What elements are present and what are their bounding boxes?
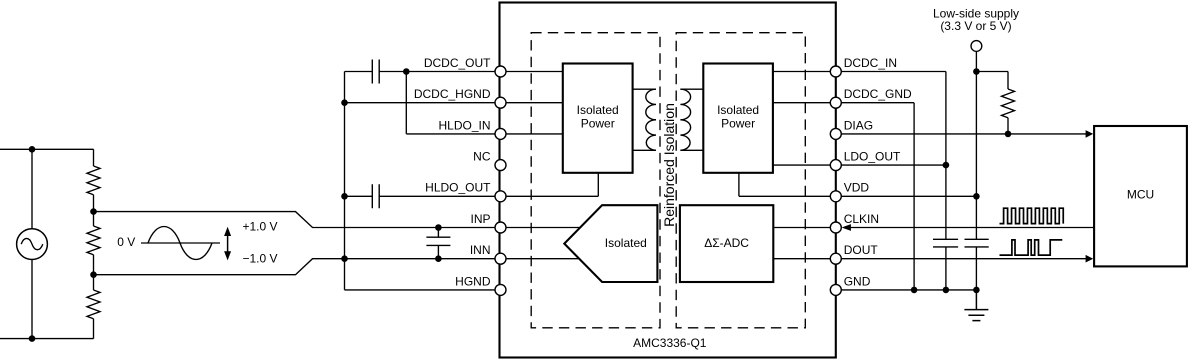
- ground symbol: [964, 290, 988, 321]
- svg-text:DCDC_OUT: DCDC_OUT: [424, 56, 491, 70]
- isolation barrier dashed box right: [676, 33, 805, 328]
- sine annotation waveform: [148, 227, 212, 260]
- wire DCDC_OUT row: [345, 71, 501, 73]
- node DCDC_OUT HLDO_IN: [403, 68, 410, 75]
- svg-text:DCDC_GND: DCDC_GND: [844, 87, 912, 101]
- svg-text:+1.0 V: +1.0 V: [243, 219, 278, 233]
- svg-text:−1.0 V: −1.0 V: [243, 252, 278, 266]
- wire VDD external: [836, 195, 977, 197]
- node VDD supply: [973, 193, 980, 200]
- node supply DCDC_IN row: [973, 68, 980, 75]
- wire source leads: [31, 149, 33, 338]
- node GND 2: [943, 287, 950, 294]
- svg-text:(3.3 V or 5 V): (3.3 V or 5 V): [940, 19, 1011, 33]
- pin DCDC_GND: [830, 97, 841, 108]
- svg-text:Isolated: Isolated: [717, 103, 759, 117]
- wire HGND row: [345, 289, 501, 291]
- svg-text:DOUT: DOUT: [844, 243, 879, 257]
- data waveform glyph: [1000, 240, 1063, 255]
- pin HLDO_OUT: [495, 191, 506, 202]
- svg-text:INP: INP: [470, 212, 490, 226]
- wire INP internal: [501, 227, 591, 229]
- wire LDO_OUT: [836, 164, 946, 166]
- svg-text:LDO_OUT: LDO_OUT: [844, 150, 901, 164]
- transformer secondary coil: [680, 89, 703, 150]
- svg-text:Reinforced Isolation: Reinforced Isolation: [661, 103, 677, 227]
- svg-text:INN: INN: [470, 243, 491, 257]
- wire x=945.9 vertical: [945, 165, 947, 290]
- node INN bus: [341, 255, 348, 262]
- node divider -1.0V: [90, 271, 97, 278]
- pin HGND: [495, 284, 506, 295]
- pin HLDO_IN: [495, 128, 506, 139]
- wire divider vertical: [93, 149, 95, 338]
- capacitor C2 HLDO_OUT: [372, 184, 379, 208]
- wire GND external: [836, 289, 977, 291]
- isolated power block U1a: [563, 64, 633, 173]
- wire HLDO_OUT internal: [501, 173, 599, 197]
- svg-text:HGND: HGND: [455, 274, 491, 288]
- pin NC: [495, 160, 506, 171]
- svg-text:Power: Power: [581, 117, 615, 131]
- wire left bus vertical x=344.5: [344, 72, 346, 290]
- transformer primary coil: [633, 89, 656, 150]
- svg-text:NC: NC: [473, 150, 491, 164]
- capacitor C5 on supply vertical: [965, 239, 989, 247]
- svg-text:AMC3336-Q1: AMC3336-Q1: [633, 336, 707, 350]
- node GND 3: [973, 287, 980, 294]
- svg-text:Isolated: Isolated: [605, 236, 647, 250]
- wire supply vertical: [975, 51, 977, 290]
- wire INP from divider: [94, 212, 501, 228]
- svg-text:CLKIN: CLKIN: [844, 212, 879, 226]
- svg-text:DCDC_IN: DCDC_IN: [844, 56, 897, 70]
- node source top: [29, 146, 36, 153]
- wire DCDC_GND: [836, 103, 914, 290]
- svg-text:GND: GND: [844, 274, 871, 288]
- node INP cap: [435, 224, 442, 231]
- svg-text:HLDO_OUT: HLDO_OUT: [425, 181, 491, 195]
- svg-text:0 V: 0 V: [117, 235, 135, 249]
- pin CLKIN: [830, 222, 841, 233]
- node DCDC_HGND bus: [341, 99, 348, 106]
- wire supply branch to resistor: [976, 72, 1008, 134]
- resistor R2: [87, 226, 100, 255]
- chip outline AMC3336-Q1: [500, 3, 836, 358]
- arrowhead DIAG: [1086, 130, 1094, 138]
- capacitor C1 DCDC_OUT to DCDC_HGND: [372, 60, 379, 84]
- sine annotation axis: [141, 242, 220, 244]
- wire DOUT internal: [773, 258, 836, 260]
- chip internal wires left side: [501, 72, 563, 134]
- wire HLDO_IN row: [406, 72, 500, 134]
- pin DCDC_IN: [830, 66, 841, 77]
- wire DCDC_IN: [836, 72, 946, 166]
- resistor R4 pull-up: [1002, 89, 1015, 118]
- svg-text:Power: Power: [721, 117, 755, 131]
- node HLDO_OUT bus: [341, 193, 348, 200]
- isolation barrier dashed box left: [531, 33, 660, 328]
- delta-sigma ADC block U1d: [680, 205, 773, 282]
- node divider +1.0V: [90, 208, 97, 215]
- svg-text:DCDC_HGND: DCDC_HGND: [414, 87, 491, 101]
- svg-text:ΔΣ-ADC: ΔΣ-ADC: [704, 236, 749, 250]
- svg-text:Isolated: Isolated: [577, 103, 619, 117]
- isolated amplifier U1c: [564, 205, 657, 282]
- wire DCDC_HGND row: [345, 102, 501, 104]
- node GND 1: [911, 287, 918, 294]
- arrowhead DOUT: [1086, 255, 1094, 263]
- svg-text:DIAG: DIAG: [844, 118, 873, 132]
- node LDO_OUT join: [943, 162, 950, 169]
- wire HLDO_OUT row: [345, 195, 501, 197]
- wire CLKIN external: [850, 227, 1094, 229]
- node DIAG resistor: [1005, 131, 1012, 138]
- arrowhead CLKIN: [842, 224, 851, 231]
- wire DOUT external: [836, 258, 1086, 260]
- wire DIAG to MCU: [836, 133, 1086, 135]
- wire CLKIN internal: [773, 227, 836, 229]
- pin DOUT: [830, 253, 841, 264]
- resistor R1: [87, 166, 100, 195]
- node INN cap: [435, 255, 442, 262]
- wire VDD internal: [739, 173, 836, 197]
- clock waveform glyph: [1000, 208, 1064, 223]
- svg-text:VDD: VDD: [844, 181, 870, 195]
- chip internal wires right side: [773, 72, 836, 166]
- wire INN from divider: [94, 259, 501, 275]
- pin circles left: [495, 66, 841, 295]
- pin LDO_OUT: [830, 160, 841, 171]
- pin INN: [495, 253, 506, 264]
- svg-text:MCU: MCU: [1127, 187, 1154, 201]
- pin DCDC_HGND: [495, 97, 506, 108]
- capacitor C4: [933, 239, 958, 247]
- wire INN internal: [501, 258, 591, 260]
- pin VDD: [830, 191, 841, 202]
- pin GND: [830, 284, 841, 295]
- pin DCDC_OUT: [495, 66, 506, 77]
- resistor R3: [87, 290, 100, 319]
- svg-text:HLDO_IN: HLDO_IN: [438, 118, 490, 132]
- isolated power block U1b: [703, 64, 773, 173]
- MCU block: [1094, 126, 1187, 266]
- swing arrow double-headed: [224, 227, 231, 261]
- pin INP: [495, 222, 506, 233]
- capacitor C3 input differential: [426, 228, 450, 259]
- supply terminal circle: [971, 41, 982, 52]
- pin DIAG: [830, 128, 841, 139]
- wire source loop left edge: [0, 149, 94, 338]
- node source bottom: [29, 335, 36, 342]
- AC source V1: [17, 229, 48, 260]
